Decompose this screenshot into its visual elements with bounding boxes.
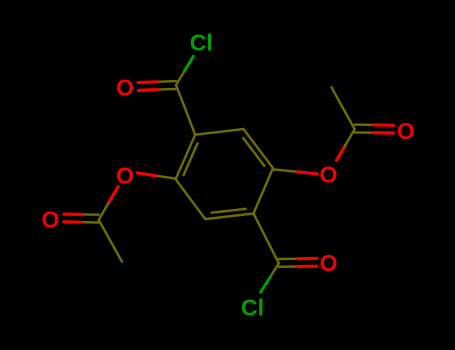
left acetyl C=O oxygen half (red) [64,214,82,222]
svg-text:O: O [42,206,60,232]
ring inner double bond C5=C6 [243,138,264,166]
top C=O double bond oxygen half (red) [138,82,157,91]
svg-text:O: O [116,74,134,100]
right acetyl C=O oxygen half (red) [374,125,394,133]
top acyl chloride C(=O)Cl : C=O double bond carbon half [157,81,176,90]
ring inner double bond C1=C2 [184,143,198,175]
wire C4 to carbonyl C of bottom COCl [254,214,279,264]
bottom C-Cl bond carbon half [270,263,279,278]
left ester O to acetyl C bond, carbon half [99,203,109,220]
left acetyl C=O carbon half [81,214,99,222]
svg-text:O: O [320,250,338,276]
right acetyl CH3 bond [332,87,355,129]
right ester O to acetyl C bond, oxygen half (red) [337,146,345,161]
left acetoxy: ring C2 to ester O bond, carbon half [157,176,176,179]
benzene ring C1-C6 [176,85,279,263]
left ester O to acetyl C bond, oxygen half (red) [108,187,118,204]
bottom C-Cl bond chlorine half (green) [261,278,270,293]
bottom acyl chloride C=O carbon half [279,259,298,267]
ring inner double bond C3=C4 [212,209,246,213]
svg-text:O: O [397,118,415,144]
svg-text:Cl: Cl [190,30,213,56]
top C-Cl bond carbon half [176,71,185,85]
svg-text:O: O [320,162,338,188]
right ester O to acetyl C bond, carbon half [345,129,355,146]
right acetoxy: ring C5 to ester O bond, carbon half [273,169,298,172]
left acetyl CH3 bond [99,220,122,262]
left C2-O bond oxygen half (red) [137,173,156,176]
bottom C=O oxygen half (red) [298,258,317,266]
right C5-O bond oxygen half (red) [298,172,318,174]
svg-text:Cl: Cl [241,294,264,320]
wire C1 to carbonyl C of top COCl [176,85,195,135]
svg-text:O: O [116,162,134,188]
right acetyl C=O carbon half [355,125,374,133]
top C-Cl bond chlorine half (green) [185,56,194,70]
